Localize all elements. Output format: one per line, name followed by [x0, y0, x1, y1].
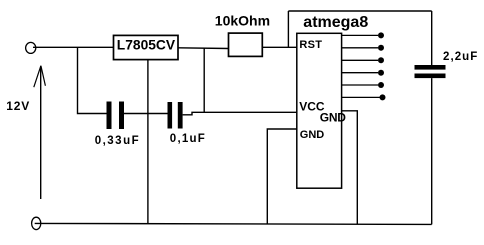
- wire top rail: [288, 10, 431, 12]
- pin 1 with dot: [341, 32, 384, 38]
- resistor R1 10kOhm: [215, 13, 270, 57]
- wire RST junction up to top rail: [287, 11, 289, 47]
- pin 5 with dot: [341, 82, 384, 88]
- pin 3 with dot: [341, 57, 384, 63]
- wire 0,1uF to VCC pin: [183, 112, 297, 115]
- capacitor C2 0,1uF: [168, 102, 207, 145]
- wire input to regulator: [33, 46, 114, 48]
- wire GND left pin to bottom rail: [267, 129, 296, 224]
- svg-text:GND: GND: [320, 111, 346, 125]
- svg-text:atmega8: atmega8: [303, 14, 368, 31]
- wire GND right pin to bottom rail: [341, 111, 357, 224]
- wire junction down to 0,33uF: [78, 47, 107, 113]
- capacitor C1 0,33uF: [95, 102, 140, 148]
- wire regulator GND down to bottom rail: [147, 60, 149, 224]
- wire junction down from output to 0,1uF net: [203, 48, 205, 112]
- pin 4 with dot: [341, 70, 384, 76]
- IC U1 atmega8 body: [297, 33, 342, 188]
- wire regulator output: [178, 47, 229, 50]
- wire right rail down to 2,2uF: [431, 11, 433, 65]
- terminal J2 (ground): [32, 217, 41, 229]
- svg-text:RST: RST: [299, 39, 322, 51]
- svg-text:12V: 12V: [6, 99, 30, 113]
- terminal J1 (+12V input): [26, 42, 36, 53]
- svg-text:2,2uF: 2,2uF: [443, 51, 478, 63]
- pin 2 with dot: [341, 45, 384, 51]
- svg-text:L7805CV: L7805CV: [117, 38, 176, 53]
- wire resistor to RST: [262, 46, 297, 48]
- 12V source arrow: [34, 66, 46, 199]
- wire between capacitors (ground net): [124, 113, 168, 115]
- svg-text:0,1uF: 0,1uF: [170, 133, 206, 145]
- svg-text:10kOhm: 10kOhm: [215, 13, 270, 29]
- wire right rail to ground rail: [431, 78, 433, 224]
- voltage regulator U2 L7805CV: [114, 35, 179, 59]
- capacitor C3 2,2uF: [415, 51, 479, 78]
- wire bottom ground rail: [35, 223, 432, 224]
- pin 6 with dot: [341, 94, 386, 100]
- svg-text:GND: GND: [300, 129, 325, 141]
- svg-text:0,33uF: 0,33uF: [95, 135, 140, 147]
